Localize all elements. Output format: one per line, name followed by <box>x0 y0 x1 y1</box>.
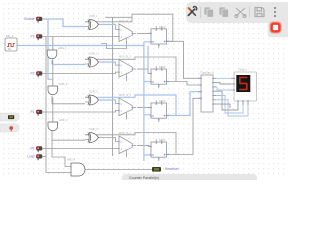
svg-text:Clk_1: Clk_1 <box>6 34 14 38</box>
svg-text:AND_2: AND_2 <box>59 82 68 86</box>
svg-text:P3: P3 <box>30 35 34 39</box>
svg-text:Load: Load <box>27 155 35 159</box>
svg-text:Reset/set: Reset/set <box>165 167 179 171</box>
svg-text:MUX_B_3: MUX_B_3 <box>119 93 131 97</box>
svg-text:Enable: Enable <box>24 17 34 21</box>
svg-text:MUX_B_1: MUX_B_1 <box>119 19 131 23</box>
svg-text:D_FF: D_FF <box>159 65 166 69</box>
svg-text:P2: P2 <box>30 72 34 76</box>
svg-text:7Seg_0: 7Seg_0 <box>238 68 248 72</box>
svg-text:D_FF: D_FF <box>159 25 166 29</box>
svg-text:AND_3: AND_3 <box>59 118 68 122</box>
svg-text:AND_4: AND_4 <box>67 158 76 162</box>
svg-text:XOR_4: XOR_4 <box>89 127 98 131</box>
svg-text:Counter Parallel(x): Counter Parallel(x) <box>129 176 159 180</box>
svg-text:AND_1: AND_1 <box>58 46 67 50</box>
svg-text:P0: P0 <box>30 147 34 151</box>
svg-text:XOR_1: XOR_1 <box>89 14 98 18</box>
svg-text:7SegDec_0: 7SegDec_0 <box>200 71 214 75</box>
svg-text:MUX_B_2: MUX_B_2 <box>119 55 131 59</box>
svg-text:XOR_3: XOR_3 <box>89 90 98 94</box>
svg-text:XOR_2: XOR_2 <box>89 52 98 56</box>
svg-text:D_FF: D_FF <box>159 138 166 142</box>
svg-text:P1: P1 <box>30 110 34 114</box>
svg-text:D_FF: D_FF <box>159 99 166 103</box>
svg-text:MUX_B_4: MUX_B_4 <box>119 131 131 135</box>
